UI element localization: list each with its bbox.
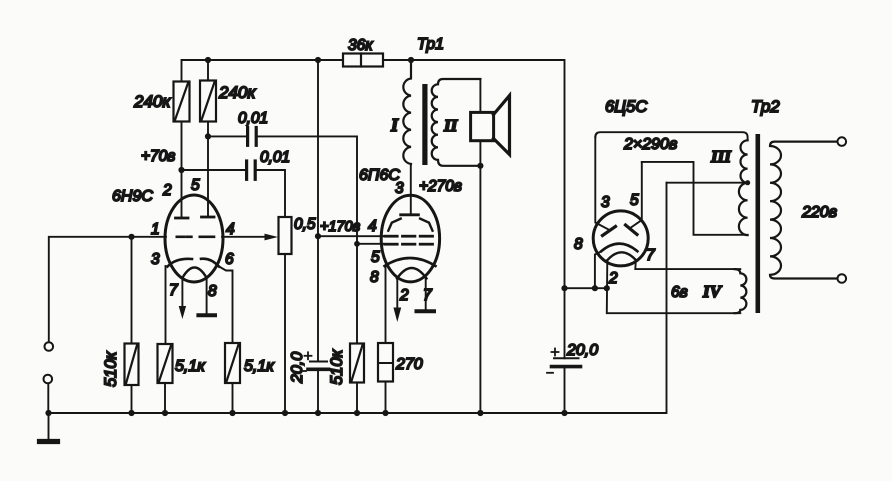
svg-text:II: II — [443, 116, 459, 135]
svg-text:+170в: +170в — [320, 219, 361, 235]
pin label V1-1 — [151, 221, 160, 238]
node junction R7 at ground rail — [354, 410, 360, 416]
node junction speaker ground line at rail — [477, 410, 483, 416]
pin label V1-2 — [162, 182, 172, 199]
svg-text:6: 6 — [225, 251, 234, 268]
pin label V1-7 — [169, 282, 179, 299]
value label 270 — [395, 356, 423, 373]
svg-text:1: 1 — [151, 221, 160, 238]
svg-text:270: 270 — [395, 356, 423, 373]
svg-text:+70в: +70в — [141, 148, 175, 165]
V3 heater pin 2 lead down to winding IV bottom — [607, 260, 741, 313]
node junction 5,1k right at ground rail — [229, 410, 235, 416]
resistor R2 5,1к cathode bias (left half V1) — [158, 344, 173, 383]
V2 heater dome — [397, 268, 427, 279]
terminal input upper — [45, 342, 54, 351]
resistor R4 240к anode load left — [174, 82, 190, 122]
svg-text:20,0: 20,0 — [566, 342, 598, 359]
wire winding III center tap to ground rail riser — [667, 182, 748, 184]
wire winding III bottom to V3 pin 5 — [642, 162, 748, 235]
svg-text:8: 8 — [370, 269, 379, 286]
wire control grid wire into V2 pin 5 — [357, 243, 383, 245]
node junction pot at ground rail — [282, 410, 288, 416]
wire C1 right lead to grid dropper line — [258, 136, 357, 343]
node junction rectifier cathode pin 8 junction — [592, 285, 598, 291]
plus sign at C4 — [552, 349, 559, 356]
wire R9 bottom lead — [385, 382, 387, 414]
terminal mains lower — [838, 274, 847, 283]
speaker box — [471, 112, 494, 140]
svg-text:2: 2 — [162, 182, 172, 199]
speaker horn — [494, 96, 510, 155]
voltage label 220в — [801, 204, 837, 221]
V1 cathode arc left (pin 3) — [168, 259, 193, 267]
svg-text:20,0: 20,0 — [289, 352, 306, 384]
pin label V2-5 — [371, 249, 380, 266]
value label 240к (left) — [133, 92, 171, 111]
winding label II — [443, 116, 459, 135]
pin label V2-2 — [399, 287, 409, 304]
Tr1 primary winding I — [403, 60, 411, 164]
wire 5,1k left bottom lead — [164, 383, 166, 413]
svg-text:III: III — [710, 147, 732, 166]
Tr1 secondary winding II — [432, 79, 481, 166]
svg-text:2×290в: 2×290в — [623, 136, 677, 153]
capacitor C3 20,0 electrolytic (+170v filter) — [310, 361, 327, 363]
svg-text:3: 3 — [151, 251, 160, 268]
pin label V2-8 — [370, 269, 379, 286]
capacitor C2 0,01 coupling to volume pot — [247, 161, 256, 179]
svg-text:Тр1: Тр1 — [417, 36, 444, 53]
node junction C4 at ground rail — [561, 410, 567, 416]
value label 510к (rotated) — [102, 350, 120, 387]
value label 240к (right) — [218, 83, 256, 102]
wire ground stem below rail at input — [48, 413, 50, 439]
resistor R8 36к dropping — [343, 54, 383, 67]
wire 240k right bottom lead down to anode pin 5 — [207, 122, 209, 217]
tube V2 6П6С envelope — [381, 195, 439, 282]
V2 screen grid dashes (pin 4) — [385, 235, 433, 238]
pin label V3-7 — [646, 247, 656, 264]
voltage label +270в — [419, 178, 462, 195]
svg-text:0,5: 0,5 — [294, 216, 316, 233]
transformer Tr2 label — [751, 97, 780, 116]
svg-text:36к: 36к — [348, 37, 373, 54]
svg-text:7: 7 — [169, 282, 179, 299]
Tr1 core — [422, 84, 427, 165]
pin label V1-6 — [225, 251, 234, 268]
ground chassis bar bottom-left — [40, 439, 58, 444]
V1 heater pin 7 lead with arrow — [179, 278, 186, 319]
R9 midline power mark — [378, 362, 393, 364]
resistor R3 5,1к cathode bias (right half V1) — [225, 343, 240, 383]
winding label III — [710, 147, 732, 166]
wire speaker top feed — [479, 79, 481, 112]
node junction B+ rail at filter cap — [561, 285, 567, 291]
svg-text:7: 7 — [423, 287, 433, 304]
svg-text:220в: 220в — [801, 204, 837, 221]
pin label V3-2 — [608, 270, 618, 287]
node junction junction anode pin5 / coupling cap C1 — [205, 133, 211, 139]
svg-text:+270в: +270в — [419, 178, 462, 195]
V2 beam plate right — [420, 219, 432, 231]
V3 cathode lead pin 8 — [595, 252, 601, 289]
svg-text:5: 5 — [630, 192, 639, 209]
V2 heater pin 2 lead with arrow — [393, 279, 401, 323]
wire input lower terminal down to ground rail — [47, 384, 49, 414]
V3 cathode arc — [601, 244, 637, 252]
terminal input lower — [44, 375, 53, 384]
wire 510k bottom lead — [131, 385, 133, 413]
node junction 5,1k left at ground rail — [162, 410, 168, 416]
pin label V3-3 — [601, 194, 610, 211]
node junction top rail at R5 240k — [205, 57, 211, 63]
wire C1 left lead from pin5 junction — [208, 135, 246, 137]
V3 anode plate right — [626, 225, 638, 235]
svg-text:5,1к: 5,1к — [175, 358, 206, 375]
V3 anode plate left — [603, 227, 616, 236]
svg-text:240к: 240к — [218, 83, 256, 102]
wire 5,1k right top lead from cathode pin 6 — [219, 267, 233, 344]
terminal mains upper — [838, 137, 847, 146]
svg-text:8: 8 — [208, 283, 217, 300]
Tr2 primary winding 220в — [770, 142, 838, 279]
svg-text:240к: 240к — [133, 92, 171, 111]
winding label I — [390, 115, 399, 135]
wire grid pin 4 wire from V1 to pot wiper — [222, 236, 266, 238]
minus sign at C4 — [547, 372, 553, 374]
node junction +170v cap at ground rail — [315, 410, 321, 416]
value label 36к — [348, 37, 373, 54]
pin label V1-5 — [191, 177, 200, 194]
wire screen grid wire into V2 pin 4 — [318, 235, 383, 237]
svg-text:0,01: 0,01 — [238, 110, 268, 127]
pin label V1-8 — [208, 283, 217, 300]
resistor R1 510к grid leak — [125, 344, 139, 386]
wire C2 left lead from +70v junction — [182, 169, 246, 171]
V1 anode plate right (pin 5) — [202, 216, 215, 219]
svg-text:6в: 6в — [671, 284, 688, 301]
node junction junction +70v tap / coupling cap C2 — [178, 167, 184, 173]
Tr2 core — [756, 134, 761, 313]
svg-text:5: 5 — [371, 249, 380, 266]
svg-text:2: 2 — [608, 270, 618, 287]
svg-text:7: 7 — [646, 247, 656, 264]
wire bottom ground rail, right end rises to Tr2 winding III center tap — [49, 183, 667, 413]
wire R7 bottom lead — [356, 383, 358, 414]
wire 240k left bottom lead down to anode pin 2 — [181, 122, 183, 218]
plus sign at C3 — [305, 352, 312, 359]
pin label V2-4 — [368, 218, 377, 235]
resistor R5 240к anode load right — [200, 81, 216, 122]
wire pot bottom lead to ground rail — [284, 254, 286, 413]
V1 heater dome — [182, 268, 206, 278]
wire input upper terminal to grid pin 1 of V1 — [49, 237, 166, 342]
svg-text:5,1к: 5,1к — [244, 358, 275, 375]
ground bar at V1 pin 8 — [198, 313, 215, 317]
node junction screen wire tap — [315, 233, 321, 239]
C4 bottom lead — [564, 367, 566, 413]
node junction input line at ground rail — [45, 410, 51, 416]
V2 anode lead up to Tr1 primary — [410, 164, 412, 215]
wire 2x290v top: winding III top to V3 pin 3 — [595, 132, 747, 140]
svg-text:4: 4 — [368, 218, 377, 235]
pin label V2-3 — [395, 180, 404, 197]
V3 anode lead pin 5 — [630, 162, 642, 229]
wire +170v screen feed from top rail down to filter cap — [317, 60, 319, 362]
V3 anode lead pin 3 — [595, 137, 608, 230]
voltage label +170в — [320, 219, 361, 235]
tube name label 6Н9С — [112, 188, 153, 205]
V2 control grid dashes (pin 5) — [385, 243, 433, 246]
value label 510к (rotated, second) — [328, 348, 346, 385]
value label 0,01 (C2) — [260, 149, 290, 166]
node junction center tap at winding III — [745, 180, 750, 185]
node junction input line at 510k grid leak — [128, 234, 134, 240]
pin label V3-5 — [630, 192, 639, 209]
svg-text:0,01: 0,01 — [260, 149, 290, 166]
wire top B+ rail from R1 top across to right side, down to rectifier cathode line — [182, 60, 565, 288]
svg-text:6Н9С: 6Н9С — [112, 188, 153, 205]
value label 0,01 (C1) — [238, 110, 268, 127]
node junction R9 at ground rail — [382, 410, 388, 416]
svg-text:5: 5 — [191, 177, 200, 194]
Tr2 winding IV (6.3v heater) — [735, 269, 747, 313]
V3 heater pin 7 lead to winding IV top — [635, 260, 740, 269]
svg-text:Тр2: Тр2 — [751, 97, 780, 116]
value label 20,0 (rotated) — [289, 352, 306, 384]
node junction speaker/secondary bottom junction — [477, 163, 483, 169]
Tr2 winding III (HV secondary) — [739, 140, 748, 235]
V1 heater pin 8 lead to ground — [206, 278, 208, 313]
transformer Tr1 label — [417, 36, 444, 53]
V2 beam plate left — [388, 219, 400, 231]
value label 5,1к (second) — [244, 358, 275, 375]
voltage label +70в — [141, 148, 175, 165]
value label 5,1к — [175, 358, 206, 375]
wire 5,1k right bottom lead — [232, 383, 234, 413]
svg-text:4: 4 — [226, 221, 235, 238]
V1 cathode arc right (pin 6) — [201, 259, 219, 267]
wire 5,1k left top lead from cathode pin 3 — [165, 266, 167, 344]
V3 heater dome — [608, 252, 637, 260]
V2 heater pin 7 lead to ground — [425, 278, 427, 310]
capacitor C4 20,0 electrolytic (main filter) — [564, 288, 566, 358]
tube V3 6Ц5С envelope — [593, 211, 648, 266]
minus sign at C3 — [301, 370, 307, 372]
svg-text:8: 8 — [574, 236, 583, 253]
voltage label 6в — [671, 284, 688, 301]
svg-text:3: 3 — [601, 194, 610, 211]
wire C2 right lead to potentiometer top — [257, 170, 285, 217]
node junction V2 control grid tap — [354, 241, 360, 247]
node junction top rail at +170v feed — [315, 57, 321, 63]
resistor R7 510к grid leak V2 — [350, 344, 364, 383]
arrowhead wiper into pot — [265, 234, 279, 241]
resistor R9 270 cathode bias V2 — [378, 343, 393, 382]
pin label V3-8 — [574, 236, 583, 253]
ground bar at V2 pin 7 — [417, 309, 435, 313]
value label 20,0 (C4) — [566, 342, 598, 359]
node junction rectifier heater pin 2 junction — [604, 285, 610, 291]
svg-text:6Ц5С: 6Ц5С — [605, 98, 647, 116]
V2 anode plate (pin 3) — [401, 213, 419, 216]
svg-text:510к: 510к — [328, 348, 346, 385]
capacitor C1 0,01 coupling to output tube grid — [248, 128, 257, 146]
V1 anode plate left (pin 2) — [176, 217, 189, 220]
pin label V1-4 — [226, 221, 235, 238]
wire B+ link to rectifier cathode and heater — [565, 287, 607, 289]
node junction top rail at Tr1 primary — [408, 57, 414, 63]
node junction 510k at ground rail — [128, 410, 134, 416]
wire 510k top lead — [131, 237, 133, 344]
svg-text:3: 3 — [395, 180, 404, 197]
svg-text:I: I — [390, 115, 399, 135]
wire speaker bottom to ground line — [479, 141, 481, 413]
svg-text:IV: IV — [702, 282, 723, 301]
wire R9 top lead from V2 cathode pin 8 — [385, 266, 387, 343]
svg-text:2: 2 — [399, 287, 409, 304]
tube name label 6Ц5С — [605, 98, 647, 116]
wire 240k right top lead — [207, 60, 209, 81]
wire +170v line below cap to ground rail — [317, 369, 319, 413]
resistor potentiometer R6 0,5 — [279, 217, 292, 254]
V2 cathode arc (pin 8) — [385, 258, 436, 266]
V1 grid dashes — [177, 236, 214, 239]
svg-text:510к: 510к — [102, 350, 120, 387]
winding label IV — [702, 282, 723, 301]
voltage label 2×290в — [623, 136, 677, 153]
tube V1 6Н9С envelope — [165, 195, 223, 282]
value label 0,5 — [294, 216, 316, 233]
tube name label 6П6С — [359, 167, 400, 184]
pin label V2-7 — [423, 287, 433, 304]
pin label V1-3 — [151, 251, 160, 268]
